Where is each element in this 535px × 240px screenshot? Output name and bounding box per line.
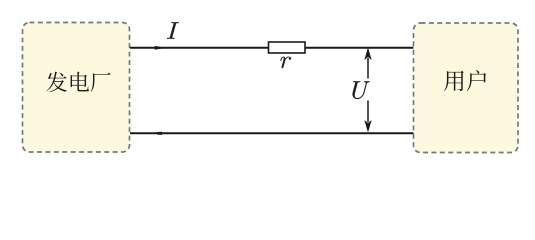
current direction arrow on top wire [155,46,166,50]
label U (voltage) [353,81,370,99]
wire top [130,47,414,49]
label r (line resistance) [280,57,291,68]
voltage arrow U (double-headed, stem broken around label) [364,48,371,133]
power plant block [23,23,130,153]
consumer block [414,23,519,153]
current direction arrow on bottom wire [156,132,163,135]
resistor r [269,42,306,53]
wire bottom [130,132,414,134]
label 发电厂 (power plant) [46,72,110,92]
label 用户 (consumer) [444,70,486,91]
label I (current) [167,22,179,38]
